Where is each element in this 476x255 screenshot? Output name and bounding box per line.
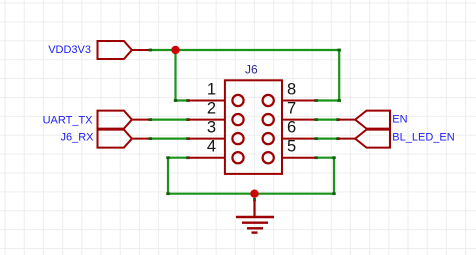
junction (ground node) <box>250 190 258 198</box>
pin 3 <box>188 119 244 145</box>
port BL_LED_EN <box>338 130 455 148</box>
wire pin7 to EN <box>315 118 340 121</box>
wire VDD3V3 to pin8 (top loop) <box>149 49 341 102</box>
svg-text:1: 1 <box>207 80 216 98</box>
svg-text:3: 3 <box>207 119 216 137</box>
ground <box>236 198 274 233</box>
svg-text:J6_RX: J6_RX <box>60 132 94 144</box>
pin 1 <box>188 80 244 106</box>
port VDD3V3 <box>48 41 149 59</box>
pin 8 <box>263 80 316 106</box>
svg-text:BL_LED_EN: BL_LED_EN <box>392 131 454 143</box>
wire J6_RX to pin3 <box>149 137 190 140</box>
svg-text:4: 4 <box>207 138 216 156</box>
svg-text:2: 2 <box>207 100 216 118</box>
svg-text:J6: J6 <box>245 63 258 77</box>
pin 5 <box>263 138 316 164</box>
wire pin6 to BL_LED_EN <box>315 137 340 140</box>
wire junction to pin1 <box>174 50 190 102</box>
junction (VDD node) <box>171 46 179 54</box>
svg-text:UART_TX: UART_TX <box>43 115 94 127</box>
port UART_TX <box>43 111 150 129</box>
port J6_RX <box>60 130 149 148</box>
wire pin4 to ground net (bottom loop) <box>166 156 335 195</box>
port EN <box>338 111 408 129</box>
svg-text:6: 6 <box>287 119 296 137</box>
svg-text:7: 7 <box>287 100 296 118</box>
svg-text:8: 8 <box>287 80 296 98</box>
svg-text:EN: EN <box>392 113 407 125</box>
pin 2 <box>188 100 244 126</box>
svg-text:5: 5 <box>287 138 296 156</box>
connector J6 body <box>225 80 282 174</box>
svg-text:VDD3V3: VDD3V3 <box>48 44 91 56</box>
wire UART_TX to pin2 <box>149 118 190 121</box>
pin 4 <box>188 138 244 164</box>
pin 7 <box>263 100 316 126</box>
pin 6 <box>263 119 316 145</box>
